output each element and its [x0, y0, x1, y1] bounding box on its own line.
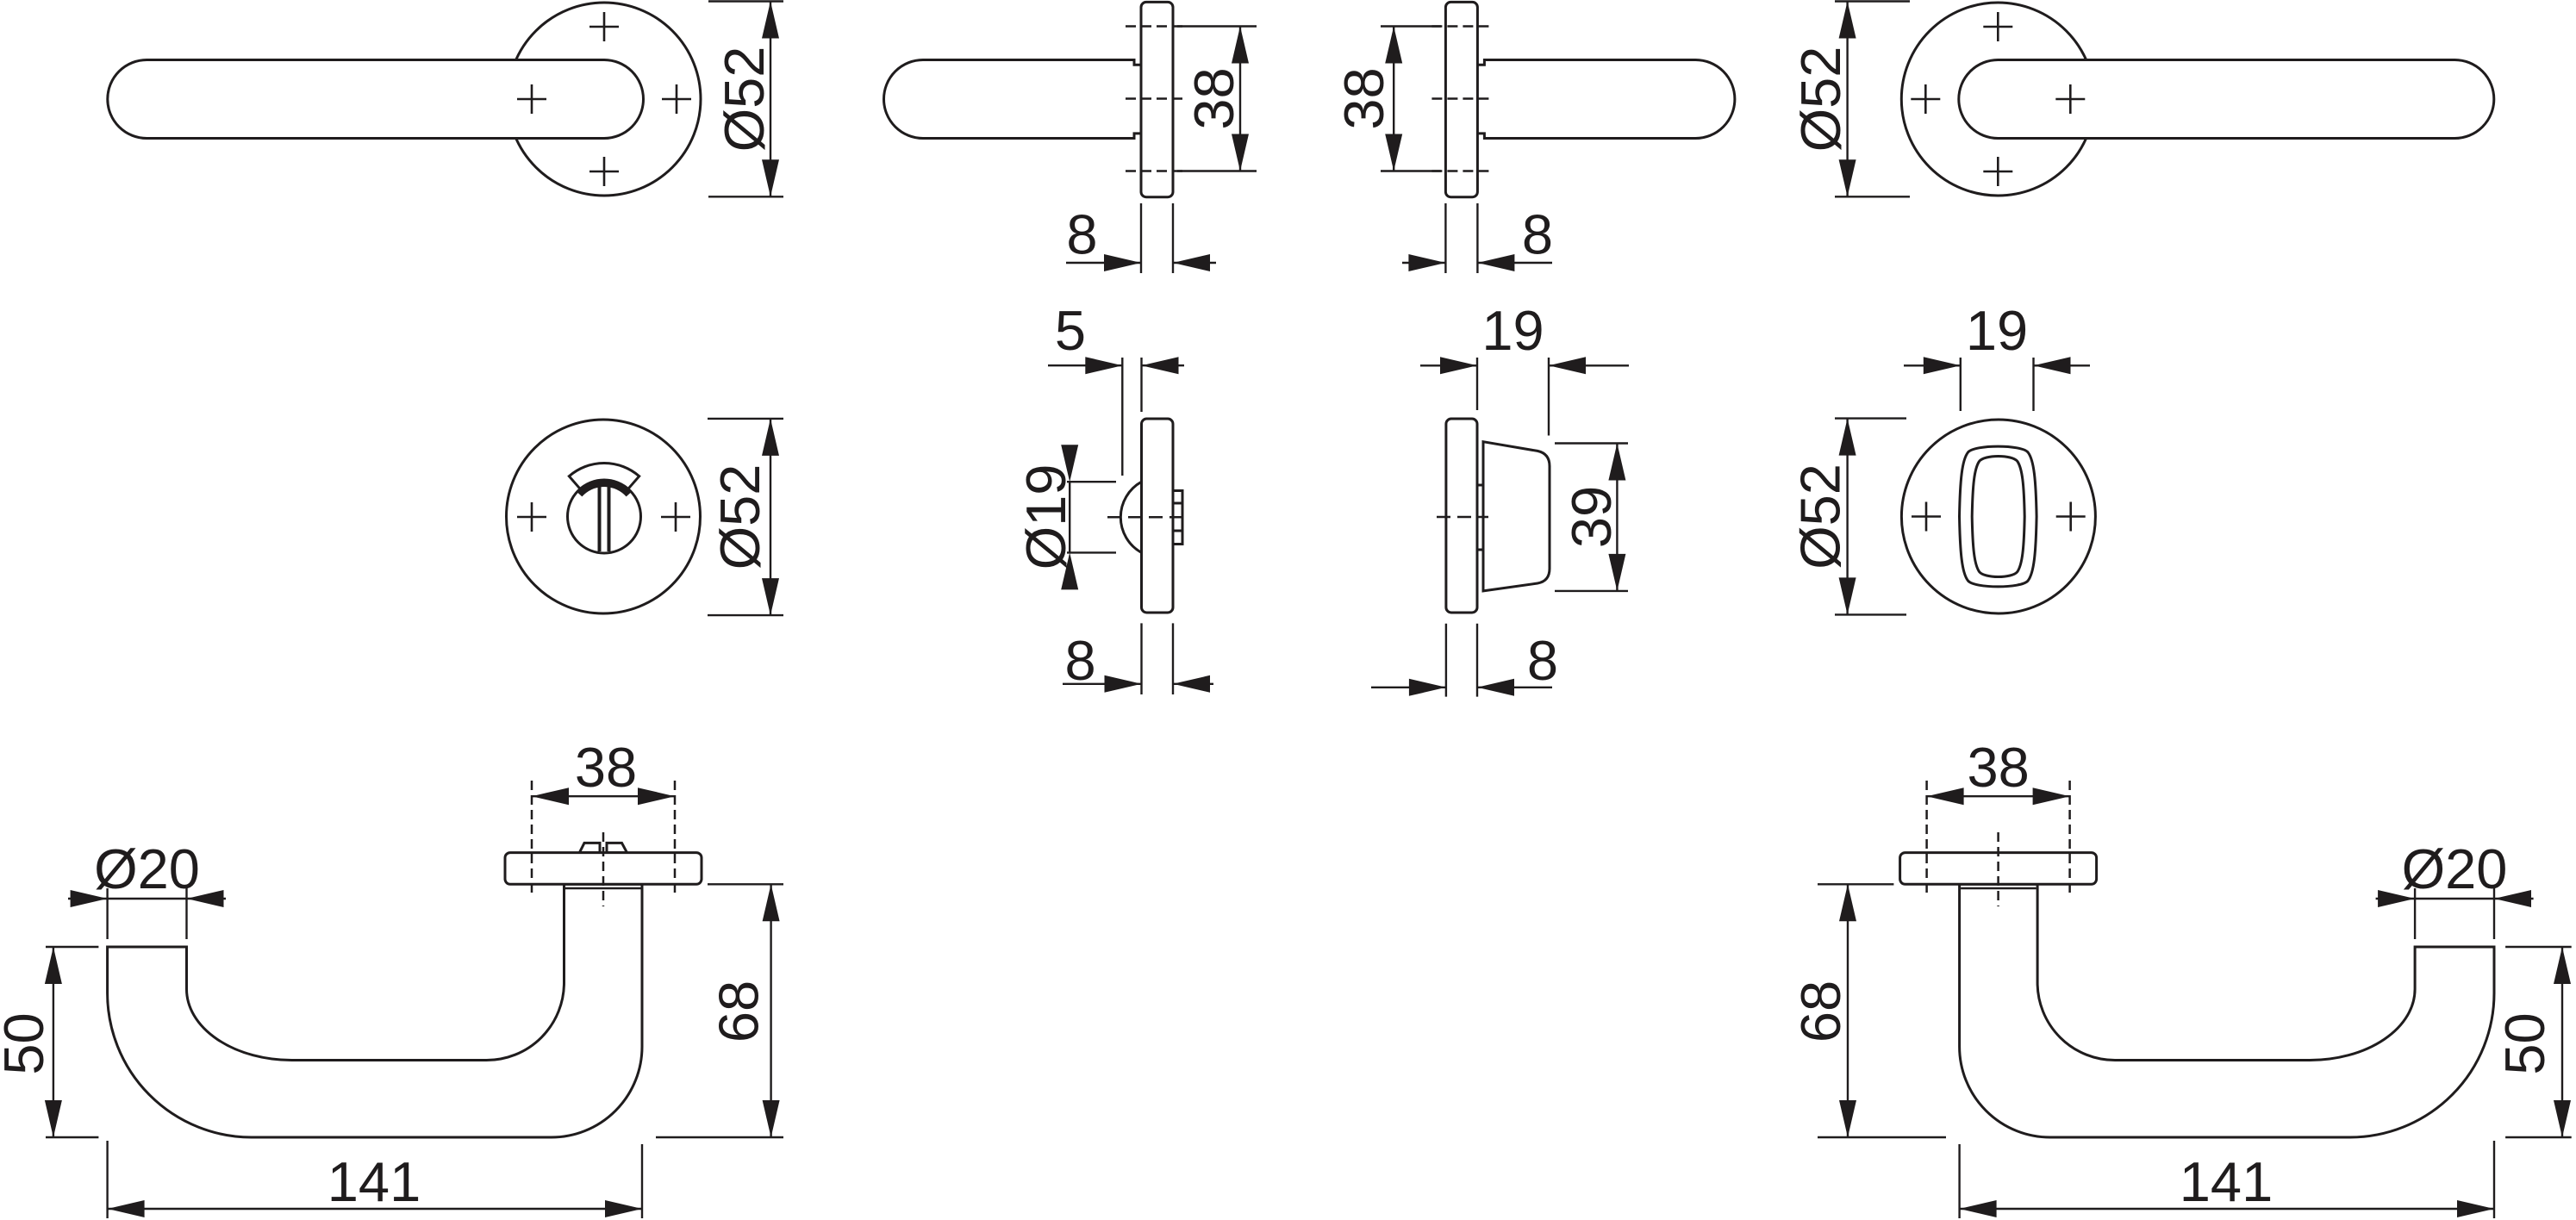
- svg-text:141: 141: [2180, 1150, 2273, 1213]
- svg-text:141: 141: [327, 1150, 421, 1213]
- svg-text:Ø52: Ø52: [1789, 47, 1852, 152]
- svg-text:38: 38: [1332, 67, 1395, 129]
- svg-text:Ø19: Ø19: [1014, 464, 1077, 570]
- svg-text:19: 19: [1966, 299, 2028, 362]
- svg-text:Ø52: Ø52: [1789, 464, 1852, 570]
- svg-text:38: 38: [1967, 736, 2029, 799]
- svg-text:Ø20: Ø20: [94, 837, 200, 900]
- svg-text:39: 39: [1560, 486, 1623, 548]
- svg-text:50: 50: [2493, 1012, 2556, 1074]
- svg-text:68: 68: [1789, 980, 1852, 1043]
- svg-text:Ø20: Ø20: [2402, 837, 2508, 900]
- svg-text:38: 38: [575, 736, 637, 799]
- svg-text:8: 8: [1066, 203, 1097, 266]
- svg-text:Ø52: Ø52: [713, 47, 776, 152]
- svg-text:8: 8: [1527, 629, 1558, 692]
- svg-text:68: 68: [708, 980, 770, 1043]
- svg-text:5: 5: [1055, 299, 1086, 362]
- svg-text:38: 38: [1182, 67, 1245, 129]
- svg-text:19: 19: [1481, 299, 1544, 362]
- svg-text:Ø52: Ø52: [708, 464, 771, 570]
- svg-text:8: 8: [1065, 629, 1096, 692]
- svg-text:50: 50: [0, 1012, 55, 1074]
- svg-text:8: 8: [1522, 203, 1553, 266]
